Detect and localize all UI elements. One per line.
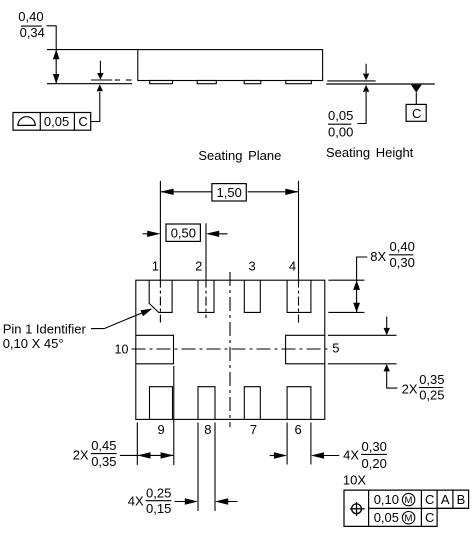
svg-text:0,20: 0,20 <box>362 456 387 471</box>
svg-text:0,05: 0,05 <box>374 510 399 525</box>
svg-text:10X: 10X <box>343 472 366 487</box>
svg-text:10: 10 <box>115 343 129 357</box>
dimension 4X 0,30/0,20 (outer pad width) <box>286 423 288 465</box>
svg-text:0,30: 0,30 <box>390 255 415 270</box>
svg-text:0,35: 0,35 <box>91 454 116 469</box>
svg-text:C: C <box>425 492 434 507</box>
seating plane line (left) <box>47 83 132 85</box>
feature control frame: profile of surface 0,05 C <box>13 113 91 131</box>
svg-text:4X: 4X <box>128 493 144 508</box>
dimension 0,05/0,00 seating height with up arrow <box>357 92 366 124</box>
svg-text:7: 7 <box>250 422 257 437</box>
svg-text:2: 2 <box>195 259 202 274</box>
pad 1 centerline <box>159 181 161 279</box>
pad 7 <box>244 387 260 420</box>
svg-text:B: B <box>457 492 466 507</box>
svg-text:C: C <box>412 106 421 121</box>
svg-text:0,10: 0,10 <box>374 492 399 507</box>
dimension 8X 0,40/0,30 (pad length) <box>328 279 364 281</box>
package body (side view) <box>138 50 323 81</box>
arrow to package bottom (left) <box>99 61 101 74</box>
svg-text:0,05: 0,05 <box>328 108 353 123</box>
package body outline (bottom view) <box>136 280 325 419</box>
svg-text:Pin 1 Identifier: Pin 1 Identifier <box>3 321 87 336</box>
svg-text:8X: 8X <box>370 249 386 264</box>
package bottom phantom line (left) <box>91 79 112 81</box>
package bottom extension line (right) <box>327 80 375 82</box>
svg-text:Seating Height: Seating Height <box>326 145 414 160</box>
seating plane line (right) <box>326 83 435 85</box>
pad 9 <box>150 387 173 420</box>
pad 5 <box>286 335 325 364</box>
svg-text:8: 8 <box>204 422 211 437</box>
dimension 0,40/0,34 (package height) <box>21 26 56 84</box>
svg-text:A: A <box>441 492 450 507</box>
dimension 2X 0,35/0,25 (side pad width) <box>328 334 397 336</box>
dimension 0,50 <box>143 233 155 235</box>
svg-text:0,25: 0,25 <box>146 486 171 501</box>
svg-text:0,30: 0,30 <box>362 439 387 454</box>
dimension 1,50 <box>160 191 212 193</box>
svg-text:9: 9 <box>158 422 165 437</box>
pad 2 centerline <box>205 223 207 278</box>
svg-text:0,40: 0,40 <box>18 9 43 24</box>
svg-text:0,00: 0,00 <box>328 124 353 139</box>
svg-text:1: 1 <box>152 259 159 274</box>
horizontal centerline of package <box>132 348 331 350</box>
true position symbol <box>350 502 365 516</box>
svg-text:4X: 4X <box>343 447 359 462</box>
down arrow at seating height (right) <box>365 64 367 75</box>
lead bump L4 (side view) <box>286 81 312 84</box>
profile of a surface symbol <box>18 117 35 126</box>
pad 8 <box>198 387 215 420</box>
lead bump L3 (side view) <box>244 81 261 84</box>
svg-text:0,34: 0,34 <box>20 25 45 40</box>
pad 10 <box>136 335 174 364</box>
svg-text:2X: 2X <box>402 382 418 397</box>
pad 1 (with pin 1 chamfer) <box>149 280 172 312</box>
svg-text:M: M <box>405 513 413 524</box>
leader from flatness frame to seating plane (up arrow) <box>91 92 100 122</box>
svg-text:C: C <box>425 510 434 525</box>
svg-text:0,40: 0,40 <box>390 239 415 254</box>
pad 2 <box>198 280 214 312</box>
svg-text:0,15: 0,15 <box>146 501 171 516</box>
svg-text:4: 4 <box>289 259 296 274</box>
dimension 2X 0,45/0,35 (side pad length) <box>136 423 138 466</box>
pad 4 centerline <box>298 181 300 279</box>
svg-text:M: M <box>405 495 413 506</box>
lead bump L2 (side view) <box>197 81 216 84</box>
pad 4 <box>287 280 311 312</box>
svg-text:3: 3 <box>249 259 256 274</box>
lead bump L1 (side view) <box>150 81 173 84</box>
datum C symbol <box>411 85 422 93</box>
extension line package top (left) <box>47 49 138 51</box>
dimension 4X 0,25/0,15 (inner pad width) <box>197 423 199 512</box>
svg-text:2X: 2X <box>73 447 89 462</box>
svg-text:0,50: 0,50 <box>171 226 196 241</box>
pin 1 identifier leader arrow <box>91 311 148 329</box>
svg-text:0,10 X 45°: 0,10 X 45° <box>3 336 64 351</box>
svg-text:0,35: 0,35 <box>419 372 444 387</box>
svg-text:0,25: 0,25 <box>419 388 444 403</box>
svg-text:C: C <box>78 114 87 129</box>
svg-text:Seating Plane: Seating Plane <box>198 148 281 163</box>
svg-text:0,45: 0,45 <box>91 438 116 453</box>
pad 3 <box>244 280 260 312</box>
pad 6 <box>287 387 311 420</box>
svg-text:6: 6 <box>295 422 302 437</box>
svg-text:1,50: 1,50 <box>217 185 242 200</box>
svg-text:0,05: 0,05 <box>44 114 69 129</box>
svg-text:5: 5 <box>332 341 339 356</box>
vertical centerline of package <box>229 272 231 427</box>
